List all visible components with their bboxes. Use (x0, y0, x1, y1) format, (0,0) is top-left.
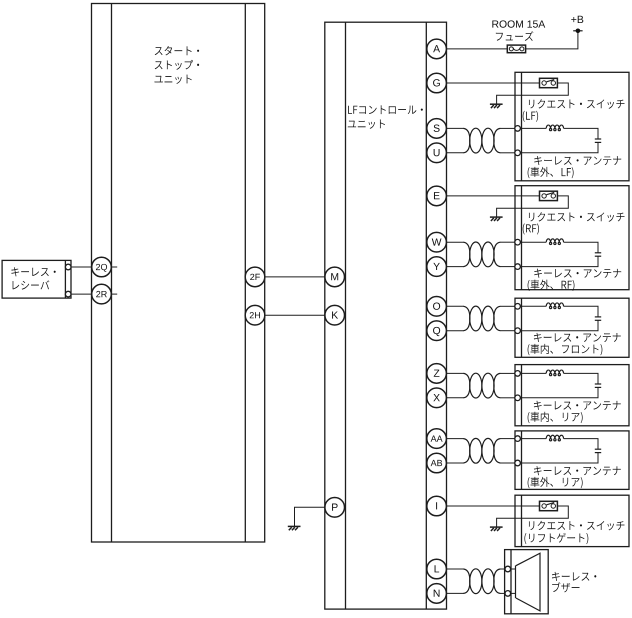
ground switch LF ground (490, 104, 503, 108)
+B supply node (573, 29, 582, 34)
inductor coil keyless antenna interior front (546, 303, 563, 309)
label: +B label (571, 16, 583, 23)
wire O pair right (500, 305, 515, 307)
label: fuse label line2 (496, 31, 534, 41)
label: keyless antenna RF label (534, 269, 621, 278)
wire L pair left (446, 568, 464, 570)
receiver port node upper (65, 264, 71, 270)
terminal Z (427, 364, 447, 384)
wire L pair right (500, 568, 505, 570)
label: keyless antenna LF label (534, 156, 621, 165)
twisted pair W-Y (464, 242, 501, 267)
buzzer port node lower (505, 591, 511, 597)
label: keyless antenna int-rear label2 (528, 412, 583, 423)
wire fuse to +B (526, 31, 578, 49)
label: keyless antenna int-front label (534, 333, 621, 342)
wire W pair left (446, 241, 464, 243)
label: request switch RF label2 (523, 223, 539, 234)
inductor coil keyless antenna interior rear (546, 370, 563, 376)
label: LF control unit label line1 (348, 105, 423, 114)
request switch / keyless antenna (RF) box (515, 186, 629, 290)
keyless buzzer box (505, 550, 549, 614)
terminal E (427, 186, 447, 206)
buzzer speaker symbol (516, 553, 541, 611)
label: request switch LF label (529, 99, 625, 109)
wire 2F to M (265, 276, 325, 278)
inductor coil keyless antenna RF (546, 239, 563, 245)
terminal AB (427, 453, 447, 473)
label: request switch LF label2 (523, 111, 538, 122)
inductor coil keyless antenna LF (546, 125, 563, 131)
terminal 2R (92, 284, 112, 304)
wire receiver to 2R (71, 293, 92, 295)
request switch liftgate box (515, 495, 629, 546)
wire switch LF to ground (497, 83, 569, 104)
switch contact request switch RF (540, 191, 558, 200)
label: keyless receiver label line1 (11, 267, 55, 276)
label: keyless antenna int-rear label (534, 401, 621, 410)
capacitor keyless antenna interior front (595, 317, 601, 320)
wire keyless antenna interior rear antenna loop (520, 373, 598, 397)
twisted pair L-N (464, 569, 501, 594)
capacitor keyless antenna exterior rear (595, 449, 601, 452)
label: start-stop unit label line2 (155, 60, 199, 70)
terminal P (325, 498, 345, 518)
wire keyless antenna RF antenna loop (520, 242, 598, 266)
antenna terminal ports keyless antenna interior front (515, 304, 521, 334)
wire stub 2R (111, 293, 117, 295)
wire 2H to K (265, 314, 325, 316)
terminal O (427, 297, 447, 317)
terminal Q (427, 321, 447, 341)
LF control unit box (325, 22, 447, 609)
antenna terminal ports keyless antenna RF (515, 239, 521, 269)
wire Z pair left (446, 372, 464, 374)
label: keyless buzzer label line2 (552, 582, 579, 592)
terminal N (427, 584, 447, 604)
twisted pair AA-AB (464, 438, 501, 463)
receiver port node lower (65, 291, 71, 297)
wire keyless antenna LF antenna loop (520, 128, 598, 152)
twisted pair S-U (464, 128, 501, 153)
terminal X (427, 388, 447, 408)
start-stop unit box (92, 4, 265, 543)
label: LF control unit label line2 (348, 120, 385, 129)
label: keyless antenna int-front label2 (528, 344, 603, 355)
terminal S (427, 119, 447, 139)
keyless receiver box (2, 260, 71, 298)
label: request switch RF label (529, 212, 625, 222)
terminal Y (427, 257, 447, 277)
terminal I (427, 496, 447, 516)
wire stub 2Q (111, 266, 117, 268)
wire switch liftgate to ground (497, 506, 569, 527)
capacitor keyless antenna RF (595, 253, 601, 256)
label: keyless antenna ext-rear label2 (528, 477, 583, 488)
terminal A (427, 39, 447, 59)
label: start-stop unit label line3 (154, 75, 191, 84)
antenna terminal ports keyless antenna exterior rear (515, 436, 521, 466)
wire AA pair right (500, 438, 515, 440)
wire AA pair left (446, 438, 464, 440)
terminal W (427, 232, 447, 252)
wire W pair right (500, 241, 515, 243)
label: keyless buzzer label line1 (552, 572, 596, 581)
terminal U (427, 143, 447, 163)
label: request switch liftgate label (529, 521, 625, 531)
twisted pair O-Q (464, 306, 501, 331)
capacitor keyless antenna interior rear (595, 384, 601, 387)
keyless antenna interior rear box (515, 365, 629, 426)
label: keyless receiver label line2 (13, 280, 50, 289)
wire buzzer lower (511, 592, 516, 594)
wire G to request switch LF (446, 82, 539, 84)
keyless antenna interior front box (515, 298, 629, 357)
twisted pair Z-X (464, 373, 501, 398)
wire buzzer upper (511, 568, 516, 570)
label: keyless antenna RF label2 (528, 280, 575, 291)
ground P ground (288, 526, 301, 530)
wire receiver to 2Q (71, 266, 92, 268)
terminal 2H (245, 305, 265, 325)
terminal M (325, 267, 345, 287)
wire keyless antenna interior front antenna loop (520, 306, 598, 330)
label: keyless antenna ext-rear label (534, 466, 621, 475)
ground switch liftgate ground (490, 527, 503, 531)
terminal L (427, 559, 447, 579)
terminal AA (427, 429, 447, 449)
label: fuse label ROOM 15A (492, 20, 545, 27)
wire A to fuse (446, 48, 507, 50)
terminal 2F (245, 267, 265, 287)
capacitor keyless antenna LF (595, 139, 601, 142)
wire P to ground (295, 507, 325, 526)
label: start-stop unit label line1 (155, 46, 199, 55)
wire keyless antenna exterior rear antenna loop (520, 439, 598, 463)
buzzer port node upper (505, 566, 511, 572)
fuse ROOM 15A (507, 45, 525, 53)
terminal K (325, 305, 345, 325)
wire S pair left (446, 127, 464, 129)
wire E to request switch RF (446, 195, 539, 197)
switch contact request switch LF (540, 78, 558, 87)
label: request switch liftgate label2 (524, 533, 588, 544)
terminal G (427, 73, 447, 93)
keyless antenna exterior rear box (515, 431, 629, 490)
request switch / keyless antenna (LF) box (515, 72, 629, 181)
switch contact request switch liftgate (540, 501, 558, 510)
wire switch RF to ground (497, 196, 569, 217)
label: keyless antenna LF label2 (528, 167, 574, 178)
ground switch RF ground (490, 217, 503, 221)
wire Z pair right (500, 372, 515, 374)
wire O pair left (446, 305, 464, 307)
terminal 2Q (92, 257, 112, 277)
inductor coil keyless antenna exterior rear (546, 435, 563, 441)
antenna terminal ports keyless antenna LF (515, 126, 521, 156)
wire I to request switch liftgate (446, 505, 539, 507)
wire S pair right (500, 127, 515, 129)
antenna terminal ports keyless antenna interior rear (515, 371, 521, 401)
